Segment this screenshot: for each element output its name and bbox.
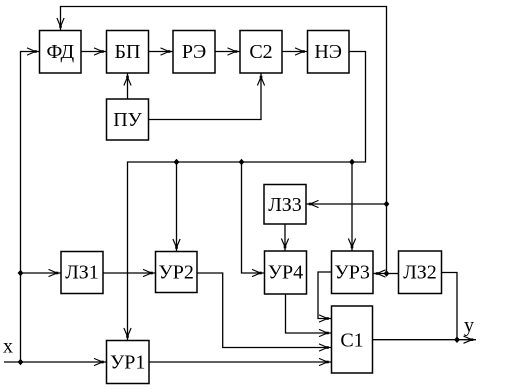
svg-text:ЛЗ1: ЛЗ1 [65, 262, 99, 284]
svg-text:БП: БП [115, 41, 141, 63]
block ЛЗ2 [399, 251, 442, 294]
wire ЛЗ3 to УР4 top [281, 224, 288, 251]
block С1 [332, 306, 373, 373]
block НЭ [308, 31, 350, 74]
block РЭ [173, 31, 215, 74]
svg-text:УР3: УР3 [335, 262, 370, 284]
wire С2 to НЭ [282, 48, 308, 55]
junction feedback УР3 ЛЗ2 node [384, 270, 390, 277]
svg-text:x: x [3, 336, 13, 358]
block УР2 [156, 252, 198, 293]
wire УР1 to С1 input4 [149, 358, 332, 365]
wire input x to УР1 [4, 358, 107, 365]
wire bus to УР3 top [348, 162, 355, 251]
svg-text:РЭ: РЭ [182, 41, 206, 63]
wire ПУ to БП [124, 73, 131, 99]
svg-text:УР4: УР4 [268, 262, 303, 284]
wire УР3 to С1 input1 [318, 272, 332, 322]
block УР3 [332, 251, 374, 294]
svg-text:ЛЗ2: ЛЗ2 [403, 262, 437, 284]
svg-text:ФД: ФД [46, 41, 74, 63]
junction feedback ЛЗ3 tap [384, 201, 390, 208]
junction bus УР2 tap [174, 159, 180, 166]
wire output y [373, 336, 477, 343]
block ПУ [107, 99, 149, 140]
wire УР2 to С1 input3 [197, 273, 332, 351]
junction x ЛЗ1 tap [18, 270, 24, 277]
wire tap to ЛЗ1 input [21, 269, 62, 276]
svg-text:УР1: УР1 [110, 352, 145, 374]
wire УР4 to С1 input2 [286, 294, 332, 337]
wire РЭ to С2 [215, 48, 240, 55]
block УР1 [107, 341, 150, 384]
label x [3, 336, 13, 358]
wire tap to ЛЗ3 input [306, 200, 387, 207]
junction y line [454, 336, 460, 343]
wire bus to УР4 input [242, 162, 265, 277]
svg-text:ЛЗ3: ЛЗ3 [268, 194, 302, 216]
junction x line [18, 359, 24, 366]
block С2 [240, 31, 282, 74]
wire node to ЛЗ2 [387, 273, 399, 275]
block ФД [40, 31, 82, 74]
svg-text:УР2: УР2 [159, 262, 194, 284]
svg-text:ПУ: ПУ [113, 109, 142, 131]
wire НЭ output bus to УР1 [124, 52, 366, 341]
svg-text:y: y [464, 315, 474, 337]
wire x feedback to ФД input [21, 48, 40, 362]
wire ФД to БП [81, 48, 107, 55]
block ЛЗ3 [264, 185, 306, 225]
wire bus to УР2 top [173, 162, 180, 252]
junction bus УР4 tap [239, 159, 245, 166]
wire ПУ to С2 bottom [149, 73, 265, 120]
block УР4 [265, 251, 307, 294]
svg-text:С2: С2 [249, 41, 272, 63]
wire ЛЗ1 to УР2 [103, 269, 156, 276]
svg-text:НЭ: НЭ [314, 41, 342, 63]
wire БП to РЭ [149, 48, 174, 55]
block ЛЗ1 [61, 252, 103, 294]
junction bus УР3 tap [349, 159, 355, 166]
wire ЛЗ2 to y line [442, 273, 458, 340]
wire feedback top to ФД [57, 7, 387, 274]
svg-text:С1: С1 [340, 330, 363, 352]
block БП [107, 31, 149, 74]
label y [464, 315, 474, 337]
wire node to УР3 input [373, 270, 387, 277]
